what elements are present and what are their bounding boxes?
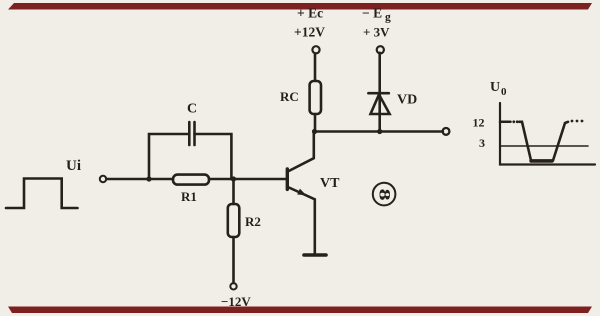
terminal -12V: [230, 283, 236, 289]
output wire: [315, 130, 443, 133]
bottom banner bar: [8, 307, 592, 314]
resistor R1: [173, 175, 209, 185]
diode VD triangle: [371, 95, 390, 115]
svg-text:U: U: [490, 80, 500, 95]
svg-text:+ Ec: + Ec: [297, 6, 323, 21]
graph waveform dots left: [512, 120, 515, 123]
transistor VT emitter lead: [288, 187, 315, 254]
wire R2 to -12V terminal: [232, 237, 235, 283]
input terminal: [100, 176, 106, 182]
svg-text:12: 12: [473, 116, 485, 130]
capacitor C loop left wire: [149, 134, 189, 179]
label +12V: [294, 25, 325, 40]
label -Eg: [362, 6, 391, 24]
svg-text:R2: R2: [245, 214, 261, 229]
graph 12-level tick: [500, 121, 511, 124]
transistor VT collector lead: [288, 132, 314, 172]
label Ui: [66, 158, 81, 174]
wire diode to node: [378, 94, 381, 132]
svg-text:0: 0: [501, 86, 507, 98]
wire input to node A: [107, 178, 150, 181]
svg-text:C: C: [187, 102, 197, 117]
diode VD cathode bar: [368, 92, 388, 95]
ground: [304, 253, 326, 257]
svg-text:− E: − E: [362, 6, 382, 21]
capacitor C loop right wire: [195, 134, 232, 179]
graph U0 axes: [500, 103, 595, 165]
svg-text:Ui: Ui: [66, 158, 81, 174]
svg-text:+ 3V: + 3V: [363, 25, 390, 40]
output terminal: [443, 128, 450, 135]
svg-text:VD: VD: [397, 93, 417, 108]
graph label 12: [473, 116, 485, 130]
graph waveform: [519, 122, 568, 161]
svg-text:R1: R1: [181, 189, 197, 204]
wire R1 to node B: [209, 178, 234, 181]
wire node B to base: [234, 178, 287, 181]
diode VD node: [377, 129, 382, 134]
circled 8: [373, 183, 396, 206]
node B: [231, 176, 236, 181]
terminal -Eg: [377, 46, 384, 53]
emitter arrow: [297, 189, 306, 196]
capacitor C plates: [188, 122, 191, 145]
resistor RC: [310, 81, 321, 114]
wire RC to collector node: [314, 114, 317, 132]
svg-text:3: 3: [479, 136, 485, 150]
svg-text:8: 8: [376, 189, 393, 201]
node A: [146, 176, 151, 181]
graph waveform bottom thick: [531, 159, 552, 162]
label +Ec: [297, 6, 323, 21]
graph label 3: [479, 136, 485, 150]
wire node A to R1: [149, 178, 173, 181]
svg-text:VT: VT: [320, 176, 340, 191]
svg-text:g: g: [385, 12, 391, 24]
transistor VT base bar: [286, 169, 289, 189]
svg-text:+12V: +12V: [294, 25, 325, 40]
wire -Eg terminal to diode: [378, 53, 381, 94]
label VD: [397, 93, 417, 108]
graph waveform dots right: [571, 120, 574, 123]
wire +Ec terminal to RC: [314, 54, 317, 81]
graph 3-level line: [500, 145, 588, 147]
wire node B to R2: [232, 179, 235, 204]
svg-text:−12V: −12V: [221, 294, 251, 309]
label C: [187, 102, 197, 117]
input square-wave symbol: [6, 179, 78, 209]
terminal +Ec: [312, 46, 319, 53]
svg-text:RC: RC: [280, 89, 299, 104]
label +3V: [363, 25, 390, 40]
top banner bar: [8, 3, 592, 10]
resistor R2: [228, 204, 240, 237]
label -12V: [221, 294, 251, 309]
collector node: [312, 129, 317, 134]
